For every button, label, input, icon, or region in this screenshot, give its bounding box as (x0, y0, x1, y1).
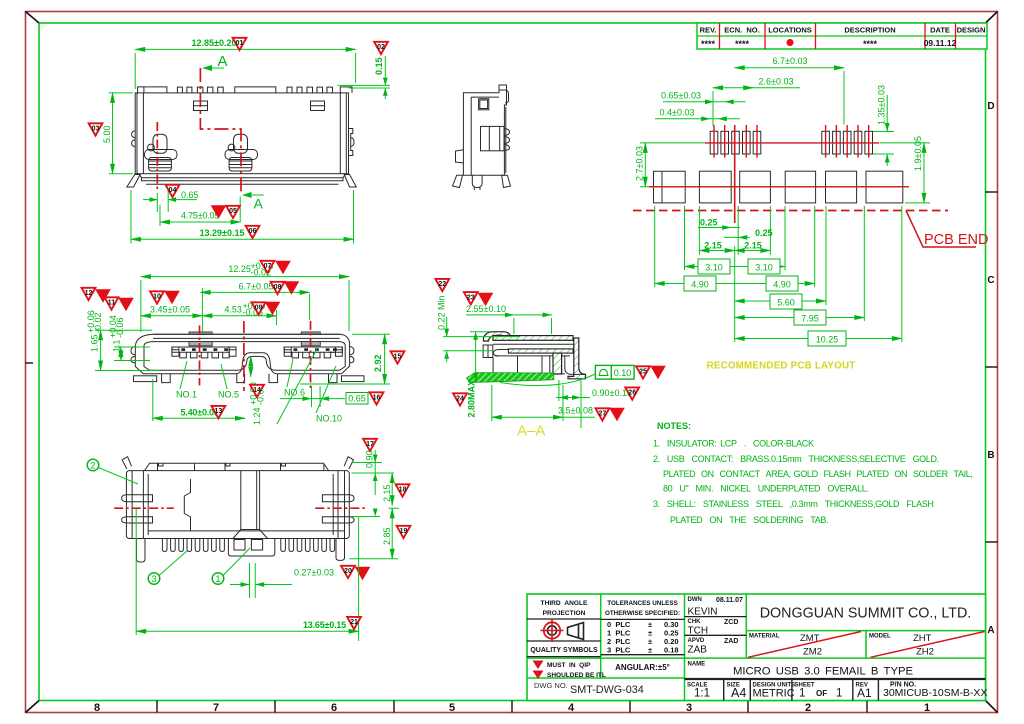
flag 04 (166, 185, 180, 197)
balloon 2 (87, 459, 99, 471)
dim 1.65 line (100, 330, 102, 370)
svg-text:2.55±0.10: 2.55±0.10 (466, 304, 506, 314)
svg-text:PLATED ON CONTACT AREA, GOL: PLATED ON CONTACT AREA, GOLD FLASH PLATE… (663, 469, 973, 479)
dim 12.25 ext lines (141, 280, 349, 332)
bottom middle block squares (234, 540, 245, 551)
zone tick left (26, 362, 34, 364)
pcb ext verticals below (655, 206, 902, 342)
filled triangle 23 (478, 293, 494, 307)
dim 12.85 ext lines (135, 53, 355, 89)
svg-text:0.15: 0.15 (374, 57, 384, 75)
svg-text:25: 25 (639, 369, 647, 376)
left ext horizontals (95, 330, 160, 370)
svg-text:0.25: 0.25 (700, 218, 718, 228)
svg-text:04: 04 (169, 187, 177, 194)
ext line teeth bottom (349, 558, 398, 560)
bottom view red centerline left (114, 507, 174, 509)
svg-text:2.7±0.03: 2.7±0.03 (635, 146, 645, 181)
section top hook (483, 332, 510, 341)
front right tongue bar (284, 347, 342, 352)
svg-text:DONGGUAN SUMMIT CO., LTD.: DONGGUAN SUMMIT CO., LTD. (760, 606, 972, 622)
title block thick black line above bottom row (685, 678, 986, 680)
filled triangle 05 (211, 205, 227, 219)
dim 2.6 pcb (713, 87, 753, 89)
svg-text:1.9±0.05: 1.9±0.05 (913, 136, 923, 171)
dim 6.7 front line (201, 291, 310, 293)
svg-text:APVD: APVD (688, 638, 705, 644)
svg-text:0.18: 0.18 (664, 646, 679, 655)
large pad B (699, 171, 731, 203)
front left tongue contacts (181, 348, 228, 351)
front right tongue contacts (294, 348, 337, 351)
bottom view inner bottom line (148, 530, 344, 532)
dim 0.90 bottom lines (351, 450, 393, 495)
dim 5.60 row (735, 300, 826, 302)
dim 10.25 row (735, 338, 902, 340)
filled triangle 07 (275, 261, 291, 275)
side view foot right (502, 175, 511, 187)
svg-text:ZAB: ZAB (688, 645, 708, 656)
filled triangle 20 (355, 567, 371, 581)
corner diagonal bottom-left (26, 701, 40, 713)
flag 21 (347, 617, 361, 629)
svg-text:4: 4 (568, 702, 575, 714)
svg-text:SHOULDED BE ITL: SHOULDED BE ITL (547, 672, 606, 679)
svg-text:2.6±0.03: 2.6±0.03 (759, 77, 794, 87)
dim 5.40 line (153, 417, 245, 419)
front centerline mid red (243, 321, 245, 391)
red row line small pads (705, 142, 879, 144)
svg-text:19: 19 (400, 528, 408, 535)
svg-text:A: A (987, 625, 994, 636)
flag 07 (261, 261, 275, 273)
svg-text:A: A (218, 53, 228, 70)
front left tongue bar (172, 347, 229, 352)
bottom view body (126, 471, 349, 539)
dim 2.55 arrows (505, 313, 552, 318)
svg-text:1.24: 1.24 (252, 407, 262, 425)
svg-text:ZCD: ZCD (724, 619, 738, 626)
dim 3.10 row (685, 266, 786, 268)
svg-text:1.1: 1.1 (112, 339, 122, 352)
svg-text:8: 8 (94, 702, 100, 714)
svg-text:QUALITY SYMBOLS: QUALITY SYMBOLS (530, 647, 598, 654)
dim 3.45 line (141, 315, 203, 317)
svg-text:2: 2 (90, 461, 95, 471)
svg-text:REV.: REV. (700, 26, 717, 35)
svg-text:6.7±0.05: 6.7±0.05 (239, 281, 274, 291)
large pad A (654, 171, 686, 203)
svg-text:21: 21 (350, 619, 358, 626)
svg-text:A4: A4 (731, 686, 746, 700)
svg-text:2. USB CONTACT: BRASS.0.15m: 2. USB CONTACT: BRASS.0.15mm THICKNESS,S… (653, 454, 939, 464)
svg-text:LOCATIONS: LOCATIONS (768, 26, 812, 35)
svg-text:3.45±0.05: 3.45±0.05 (150, 305, 190, 315)
svg-text:08.11.07: 08.11.07 (716, 597, 743, 604)
title block green verticals (601, 594, 866, 701)
svg-text:2: 2 (805, 702, 811, 714)
section inner lines (493, 344, 574, 356)
dim 0.22 lines (443, 317, 520, 351)
filled triangle 25 (650, 366, 666, 380)
svg-text:80 U" MIN. NICKEL UNDERPLA: 80 U" MIN. NICKEL UNDERPLATED OVERALL. (663, 484, 869, 494)
material red slash (748, 632, 861, 658)
svg-text:7.95: 7.95 (801, 314, 819, 324)
bottom comb left teeth (162, 539, 224, 552)
svg-text:07: 07 (264, 263, 272, 270)
title block black lines col1 (527, 617, 746, 657)
dim 12.25 line (141, 276, 349, 278)
corner diagonal bottom-right (986, 701, 998, 713)
svg-text:A: A (254, 196, 264, 212)
tolerance table (607, 620, 679, 655)
svg-text:2.15: 2.15 (382, 484, 392, 502)
svg-text:13.29±0.15: 13.29±0.15 (200, 228, 245, 238)
dim 0.90 lower arrow (373, 509, 378, 517)
side view window (479, 99, 489, 110)
front lip bump left (189, 332, 212, 334)
svg-text:12.25: 12.25 (228, 264, 251, 274)
balloon 1 (212, 573, 224, 585)
revision table box (697, 23, 987, 49)
dim 4.53 ext (276, 310, 278, 325)
section bottom line (475, 373, 565, 375)
front side tab right (350, 347, 354, 363)
flag 16 (370, 392, 384, 404)
dim 2.80MAX arrows (473, 332, 478, 382)
dim 0.90 arrows (559, 395, 581, 400)
flatness callout box (595, 365, 634, 379)
svg-text:TCH: TCH (688, 626, 709, 637)
filled triangle 12 (95, 289, 111, 303)
dim 0.65 arrows (143, 199, 197, 201)
dim 0.65 contact line (280, 386, 345, 407)
svg-text:ZHT: ZHT (913, 633, 932, 644)
side view mid block lines (489, 126, 499, 150)
svg-text:ZM2: ZM2 (803, 647, 822, 658)
svg-text:KEVIN: KEVIN (688, 607, 718, 618)
small pads group 2 (822, 131, 873, 154)
svg-text:A1: A1 (857, 686, 872, 700)
svg-text:11: 11 (108, 300, 116, 307)
svg-text:5.00: 5.00 (102, 125, 112, 143)
top view solder post right (225, 134, 258, 171)
svg-text:MUST IN QIP: MUST IN QIP (547, 662, 591, 669)
top view latch window right (311, 101, 325, 111)
filled triangle 10 (164, 291, 180, 305)
zone numbers bottom (94, 702, 930, 714)
svg-text:4.90: 4.90 (773, 280, 791, 290)
svg-text:****: **** (701, 39, 716, 49)
section arrow lower (242, 192, 264, 198)
dim 4.53 line (202, 315, 276, 317)
dim 2.92 ext lines (300, 334, 390, 384)
svg-text:16: 16 (373, 395, 381, 402)
flag 18 (396, 484, 410, 496)
filled triangle 09 (265, 302, 281, 316)
svg-text:0.65: 0.65 (348, 394, 366, 404)
svg-text:3: 3 (686, 702, 692, 714)
bottom view corner ear right (344, 457, 353, 469)
svg-text:4.90: 4.90 (691, 280, 709, 290)
front side tab left (131, 347, 135, 363)
dim 1.1 line (120, 347, 122, 361)
red center long line (734, 125, 736, 223)
top view latch window right midline (311, 105, 325, 107)
tolerances header (605, 600, 680, 617)
svg-text:10.25: 10.25 (816, 335, 839, 345)
red row line large pads (648, 186, 909, 188)
svg-text:DATE: DATE (930, 26, 950, 35)
svg-text:TOLERANCES UNLESS: TOLERANCES UNLESS (607, 600, 678, 607)
top view right edge notch (349, 129, 355, 156)
front foot plate left (134, 376, 157, 382)
side view window inner (480, 100, 488, 109)
section top strip (493, 336, 573, 341)
svg-text:3. SHELL: STAINLESS STEEL: 3. SHELL: STAINLESS STEEL ,0.3mm THICKNE… (653, 499, 934, 509)
quality mark triangle 2 (533, 671, 544, 680)
svg-text:5: 5 (449, 702, 455, 714)
section tongue hatched (508, 349, 573, 353)
title block outer box (527, 594, 986, 701)
section arrow upper (202, 65, 224, 71)
svg-text:5.60: 5.60 (777, 298, 795, 308)
dim 0.90 ext lines (556, 380, 590, 428)
flag 24 (453, 393, 467, 405)
section lower verticals (493, 356, 550, 374)
flag 01 (233, 38, 247, 50)
dim 1.24 line (250, 356, 252, 376)
flag 03 (89, 123, 103, 135)
svg-text:0.65: 0.65 (181, 190, 199, 200)
svg-text:1.35±0.03: 1.35±0.03 (877, 85, 887, 125)
filled triangle 08 (284, 281, 300, 295)
side view right bumps (504, 129, 509, 151)
svg-text:ZH2: ZH2 (916, 647, 934, 658)
leader NO.1 (180, 361, 187, 389)
front view top lip (153, 334, 340, 338)
bottom view side slots right (322, 495, 354, 523)
flag 12 (82, 288, 96, 300)
top view left tab divider (143, 87, 145, 93)
svg-text:6.7±0.03: 6.7±0.03 (773, 56, 808, 66)
svg-text:1: 1 (836, 688, 842, 700)
top view foot right (344, 175, 356, 188)
dim 0.27 ext verticals (250, 563, 256, 598)
svg-text:C: C (987, 275, 994, 286)
dim 0.22 lower stub (446, 351, 448, 362)
svg-text:1: 1 (924, 702, 930, 714)
bottom comb left big tooth (137, 539, 146, 563)
filled triangle 11 (118, 298, 134, 312)
section leader arc (500, 374, 595, 386)
dim 2.15 bottom (391, 473, 393, 505)
svg-text:THIRD ANGLE: THIRD ANGLE (541, 600, 588, 607)
dim 5.00 line (112, 93, 114, 174)
front right tongue end caps (284, 347, 342, 356)
bottom view band corner marks (159, 463, 286, 466)
svg-text:2.15: 2.15 (744, 240, 762, 250)
svg-text:17: 17 (366, 441, 374, 448)
svg-text:NO.5: NO.5 (218, 390, 239, 400)
revision table header separator (697, 35, 987, 37)
front left tongue end caps (172, 347, 236, 356)
dim 2.85 bottom (391, 508, 393, 559)
bottom view red centerline right (315, 507, 368, 509)
title block bottom row dividers (724, 679, 879, 701)
svg-text:3.10: 3.10 (705, 263, 723, 273)
svg-text:6: 6 (331, 702, 337, 714)
svg-text:2.92: 2.92 (373, 354, 383, 372)
svg-text:13: 13 (215, 408, 223, 415)
svg-text:14: 14 (253, 387, 261, 394)
revision table headers (700, 26, 986, 35)
centerline left post red (156, 122, 158, 190)
svg-text:13.65±0.15: 13.65±0.15 (303, 620, 346, 630)
svg-text:METRIC: METRIC (753, 688, 795, 700)
flag 08 (271, 282, 285, 294)
dim 0.27 arrows (230, 584, 292, 586)
bottom view top tabs (145, 463, 329, 470)
dim 12.85 line (135, 48, 355, 50)
svg-text:OTHERWISE SPECIFIED:: OTHERWISE SPECIFIED: (605, 610, 680, 617)
svg-text:27: 27 (599, 411, 607, 418)
svg-text:2.15: 2.15 (704, 240, 722, 250)
small pads group 1 (710, 131, 761, 154)
large pad F (866, 171, 903, 203)
section left block (483, 345, 493, 358)
svg-text:NOTES:: NOTES: (657, 421, 691, 431)
balloon 3 (148, 573, 160, 585)
dim 2.55 line (466, 315, 552, 334)
svg-text:D: D (987, 101, 994, 112)
front cavity outline (144, 342, 345, 371)
dim 1.9 pcb (880, 143, 930, 203)
svg-text:****: **** (863, 39, 878, 49)
top view latch window left midline (194, 105, 208, 107)
svg-text:CHK: CHK (688, 619, 702, 625)
top view left edge bumps (132, 131, 136, 147)
balloon 3 leader (159, 551, 187, 576)
flag 13 (212, 406, 226, 418)
svg-text:0.25: 0.25 (755, 228, 773, 238)
title block green horizontals (527, 631, 986, 678)
svg-text:1: 1 (799, 688, 805, 700)
flag 02 (374, 42, 388, 54)
svg-text:B: B (987, 450, 994, 461)
dim 13.65 line (136, 630, 358, 632)
revision location red dot (787, 39, 794, 46)
svg-text:A–A: A–A (517, 423, 545, 440)
side view left notch (456, 150, 464, 163)
svg-text:15: 15 (394, 354, 402, 361)
third angle projection header (541, 600, 588, 617)
zone ticks right (986, 192, 998, 542)
svg-text:DWN: DWN (688, 597, 702, 603)
svg-text:0.65±0.03: 0.65±0.03 (661, 90, 701, 100)
flag 23 (464, 292, 478, 304)
svg-text:****: **** (735, 39, 750, 49)
svg-text:PLATED ON THE SOLDERING TA: PLATED ON THE SOLDERING TAB. (670, 515, 828, 525)
zone ticks bottom (157, 701, 867, 713)
model red slash (871, 632, 985, 658)
svg-text:MODEL: MODEL (869, 634, 891, 640)
svg-text:0.22 Min: 0.22 Min (437, 295, 447, 330)
svg-text:0.90: 0.90 (365, 450, 375, 468)
flag 14 (250, 385, 264, 397)
side view top hook (499, 90, 509, 103)
leader NO.6 (287, 359, 293, 387)
bottom middle block (228, 539, 274, 557)
svg-text:NO.1: NO.1 (176, 390, 197, 400)
svg-text:1: 1 (215, 574, 220, 584)
top view bottom flange (139, 174, 347, 181)
dim 0.22 arrows (444, 329, 449, 359)
dim 0.65 ext lines (157, 185, 168, 212)
svg-text:26: 26 (628, 390, 636, 397)
svg-text:PROJECTION: PROJECTION (543, 610, 586, 617)
flag 05 (226, 206, 240, 218)
dim 3.5 line (492, 416, 563, 418)
svg-text:MICRO USB 3.0 FEMAIL B TYPE: MICRO USB 3.0 FEMAIL B TYPE (733, 666, 914, 678)
svg-text:-0.06: -0.06 (115, 317, 125, 338)
bottom view side slots left (122, 495, 153, 523)
leader NO.5 (221, 364, 227, 389)
flag 09 (252, 302, 266, 314)
svg-text:24: 24 (456, 396, 464, 403)
projection target symbol (541, 619, 564, 642)
front right tongue teeth (292, 352, 335, 358)
svg-text:08: 08 (274, 284, 282, 291)
dim 1.35 pcb (873, 95, 894, 166)
svg-text:30MICUB-10SM-B-XX: 30MICUB-10SM-B-XX (883, 687, 987, 699)
top view top tabs (138, 87, 352, 93)
flag 10 (150, 291, 164, 303)
front lip bump right (301, 332, 320, 334)
section back wall (568, 338, 586, 379)
dim 0.4 pcb (655, 118, 740, 120)
flag 27 (596, 408, 610, 420)
dim 0.15 lines (338, 56, 391, 99)
svg-text:ANGULAR:±5°: ANGULAR:±5° (615, 663, 670, 672)
top view flange inner line (146, 183, 339, 185)
section contact block hatched (553, 353, 562, 374)
front left tongue teeth (180, 352, 229, 358)
svg-text:RECOMMENDED PCB LAYOUT: RECOMMENDED PCB LAYOUT (707, 361, 856, 372)
flag 11 (105, 297, 119, 309)
svg-text:DESCRIPTION: DESCRIPTION (844, 26, 895, 35)
revision table column lines (720, 23, 956, 49)
corner diagonal top-left (26, 12, 40, 24)
svg-text:02: 02 (377, 44, 385, 51)
top view body outline (135, 93, 348, 174)
svg-text:SMT-DWG-034: SMT-DWG-034 (570, 684, 644, 696)
dim 2.92 line (384, 334, 386, 384)
PCB END dashed line (633, 210, 948, 212)
dim 13.65 ext left (135, 508, 137, 635)
flag 25 (636, 366, 650, 378)
svg-text:3.5±0.08: 3.5±0.08 (558, 406, 593, 416)
dim 5.00 ext lines (109, 93, 133, 174)
dim 7.95 row (735, 317, 865, 319)
large pad D (785, 171, 815, 203)
svg-text:0.27±0.03: 0.27±0.03 (294, 568, 334, 578)
front shell outline (135, 334, 349, 374)
dim 2.80MAX line (470, 332, 490, 382)
flag 06 (246, 226, 260, 238)
zone letters right (987, 101, 994, 636)
side view body outline (463, 85, 506, 175)
